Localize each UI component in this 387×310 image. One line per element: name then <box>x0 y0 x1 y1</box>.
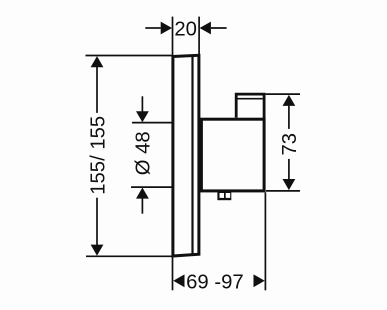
svg-text:20: 20 <box>174 19 197 41</box>
svg-text:Ø 48: Ø 48 <box>133 131 155 175</box>
svg-text:69 -97: 69 -97 <box>186 271 244 293</box>
svg-text:73: 73 <box>279 133 301 156</box>
svg-text:155/ 155: 155/ 155 <box>88 116 110 195</box>
